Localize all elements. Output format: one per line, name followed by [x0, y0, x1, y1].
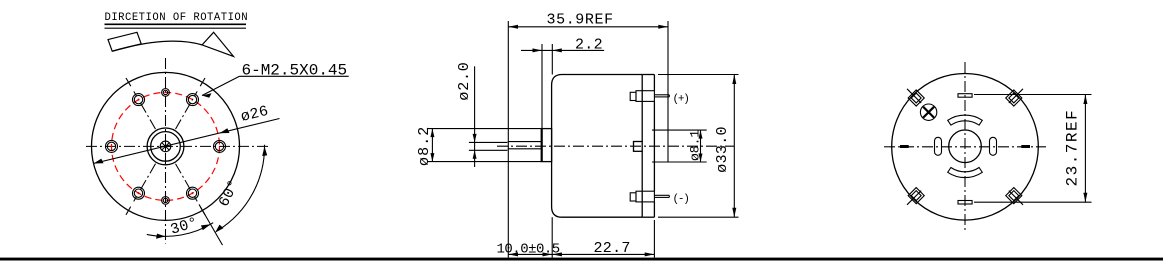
mini vent slot left — [900, 145, 909, 148]
crimp tab diamond 225 — [908, 188, 924, 204]
small hole 90deg — [162, 89, 170, 97]
svg-text:DIRCETION OF ROTATION: DIRCETION OF ROTATION — [105, 12, 249, 24]
svg-text:(-): (-) — [673, 194, 689, 206]
top terminal slot — [958, 94, 972, 98]
bottom arc slot — [948, 168, 983, 178]
rear bearing boss — [634, 142, 643, 152]
vertical centerline — [964, 62, 966, 232]
front bearing boss — [541, 129, 551, 162]
bolt circle red dashed — [112, 92, 220, 200]
motor body outline — [552, 75, 643, 218]
svg-text:35.9REF: 35.9REF — [547, 11, 614, 28]
shaft — [508, 141, 542, 143]
hole 120deg — [133, 94, 145, 106]
bottom terminal slot — [958, 201, 972, 205]
radial centerline 60 — [176, 91, 198, 129]
crimp tab diamond 135 — [908, 90, 924, 106]
tick 315 — [1009, 191, 1023, 205]
60 deg dimension arc — [218, 145, 265, 231]
svg-text:ø2.0: ø2.0 — [456, 61, 473, 100]
tick across circle at 60 — [200, 78, 205, 86]
rear outer circle — [892, 74, 1039, 221]
horizontal centerline — [884, 146, 1046, 148]
top arc slot — [948, 115, 983, 125]
300 deg ray extension — [199, 204, 223, 245]
tick across circle at 240 — [126, 207, 131, 215]
center axis line — [497, 145, 734, 147]
hole 180deg — [106, 140, 118, 152]
tick 225 — [907, 191, 921, 205]
crimp tab diamond 45 — [1006, 90, 1022, 106]
rotation arrow arc — [112, 41, 202, 51]
rotation arrowhead triangle — [202, 32, 233, 56]
svg-text:(+): (+) — [673, 94, 689, 106]
small hole 270deg — [162, 197, 170, 205]
horizontal centerline — [86, 145, 270, 147]
can right edge — [641, 75, 643, 142]
crossed screw circle — [920, 104, 936, 120]
radial centerline 300 — [176, 164, 198, 202]
hole 60deg — [187, 94, 199, 106]
leader dia26 — [94, 119, 280, 164]
left oval slot — [935, 137, 942, 155]
crimp tab diamond 315 — [1006, 188, 1022, 204]
hole 300deg — [187, 187, 199, 199]
terminal plus block — [636, 91, 654, 102]
hole 0deg — [214, 140, 226, 152]
hub outer circle — [147, 128, 184, 165]
header underline 2 — [105, 27, 247, 29]
radial centerline 240 — [134, 164, 156, 202]
tick 45 — [1009, 89, 1023, 103]
terminal minus block — [636, 191, 654, 202]
svg-text:23.7REF: 23.7REF — [1064, 109, 1082, 187]
right oval slot — [990, 137, 997, 155]
mini vent slot right — [1021, 145, 1030, 148]
tick across circle at 300 — [200, 207, 205, 215]
motor outer circle — [92, 72, 240, 220]
extension line right (terminal tip plane) — [667, 21, 669, 162]
bottom border line — [0, 258, 1163, 261]
hub circle — [949, 130, 982, 163]
radial centerline 120 — [134, 91, 156, 129]
tick across circle at 120 — [126, 78, 131, 86]
rotation arrow tail box — [108, 32, 141, 51]
shaft circle with knurl — [160, 141, 171, 152]
tick 135 — [907, 89, 921, 103]
hole 240deg — [133, 187, 145, 199]
30 deg dimension arc — [147, 223, 213, 237]
svg-text:ø33.0: ø33.0 — [714, 126, 731, 173]
hub inner circle — [151, 132, 181, 162]
svg-text:ø8.2: ø8.2 — [416, 126, 433, 166]
extension line left (shaft tip plane) — [507, 21, 509, 258]
end cap — [653, 75, 655, 91]
header underline 1 — [105, 23, 247, 25]
vertical centerline — [165, 58, 167, 244]
